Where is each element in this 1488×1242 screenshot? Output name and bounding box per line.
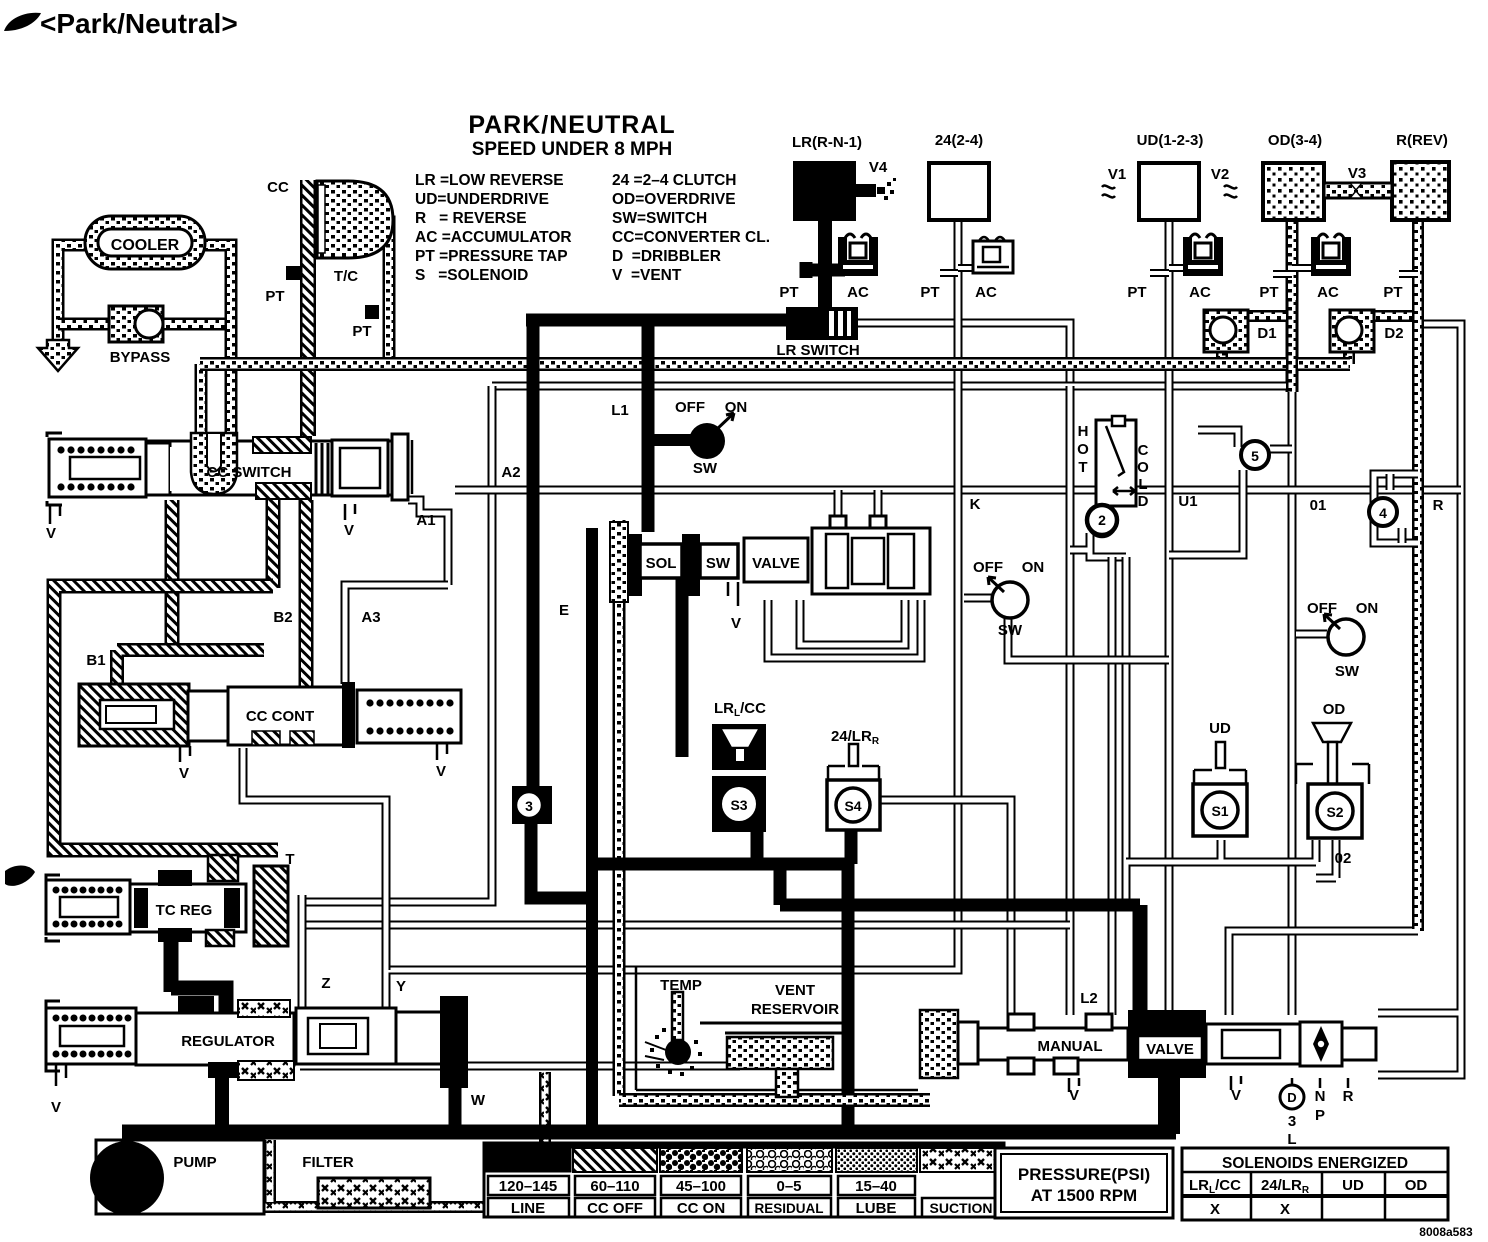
svg-text:V4: V4 xyxy=(869,159,888,176)
wire: secondary bus y386 xyxy=(492,382,1292,391)
wire: cooler right pipe down to CC switch xyxy=(198,245,231,462)
svg-text:SPEED UNDER 8 MPH: SPEED UNDER 8 MPH xyxy=(472,139,673,160)
svg-text:X: X xyxy=(1210,1201,1220,1218)
svg-text:3: 3 xyxy=(525,798,533,814)
pressure psi box xyxy=(995,1148,1173,1218)
svg-text:LRL/CC: LRL/CC xyxy=(714,700,766,719)
svg-text:C: C xyxy=(1138,442,1149,459)
wire: Z vertical xyxy=(298,895,307,1012)
switch SW1 (on, black) xyxy=(689,423,725,459)
circuit ball 2 xyxy=(1087,505,1117,535)
svg-text:60–110: 60–110 xyxy=(590,1178,639,1195)
CC CONT valve xyxy=(79,682,461,762)
svg-text:U1: U1 xyxy=(1178,493,1197,510)
svg-text:R: R xyxy=(1433,497,1444,514)
svg-text:120–145: 120–145 xyxy=(499,1178,557,1195)
wire: A3 branch xyxy=(345,585,448,684)
svg-text:S3: S3 xyxy=(730,797,747,813)
solenoid S2 xyxy=(1296,723,1369,838)
svg-text:UD=UNDERDRIVE: UD=UNDERDRIVE xyxy=(415,191,549,208)
svg-text:UD: UD xyxy=(1342,1177,1364,1194)
pressure legend table xyxy=(484,1143,1004,1217)
wire: under solenoid-valve U loop xyxy=(768,600,921,658)
svg-text:E: E xyxy=(559,602,569,619)
svg-text:PRESSURE(PSI): PRESSURE(PSI) xyxy=(1018,1165,1150,1184)
wire: black bus under solenoids xyxy=(592,826,851,864)
svg-text:CC: CC xyxy=(267,179,289,196)
vent squiggles V2 xyxy=(1224,186,1237,198)
svg-text:SW: SW xyxy=(706,555,731,572)
svg-text:SW: SW xyxy=(693,460,718,477)
svg-text:SOLENOIDS ENERGIZED: SOLENOIDS ENERGIZED xyxy=(1222,1155,1408,1172)
svg-text:2: 2 xyxy=(1098,512,1106,528)
svg-text:B2: B2 xyxy=(273,609,292,626)
wire: S1 column lines xyxy=(1112,557,1126,1015)
svg-text:ON: ON xyxy=(725,399,748,416)
wire: OD clutch stem (stipple) xyxy=(1286,218,1299,392)
svg-text:VENT: VENT xyxy=(775,982,815,999)
solenoid S1 xyxy=(1193,742,1247,836)
V3 link channel xyxy=(1324,183,1392,198)
svg-text:A1: A1 xyxy=(416,512,435,529)
CC switch valve xyxy=(47,433,412,524)
svg-text:V3: V3 xyxy=(1348,165,1366,182)
svg-text:V: V xyxy=(179,765,189,782)
wire: regulator bottom stem xyxy=(215,1078,229,1132)
wire: LR pressure tap tee xyxy=(804,262,845,278)
svg-text:V: V xyxy=(344,522,354,539)
svg-text:OD(3-4): OD(3-4) xyxy=(1268,132,1322,149)
solenoid 3 box xyxy=(512,786,552,824)
svg-text:T: T xyxy=(285,851,294,868)
bypass valve xyxy=(109,306,163,342)
filter xyxy=(318,1178,430,1208)
wire: 01 line down to manual valve xyxy=(1288,388,1297,1015)
pressure tap on converter outlet xyxy=(365,305,379,319)
wire: U1 line from UD clutch down to manual valve xyxy=(1165,222,1174,1015)
svg-text:CC ON: CC ON xyxy=(677,1200,725,1217)
wire: L2 line from LR switch elbow down to manual valve xyxy=(1066,386,1075,1015)
circuit ball 4 with bracket xyxy=(1374,474,1418,543)
svg-text:SUCTION: SUCTION xyxy=(930,1200,993,1216)
svg-text:4: 4 xyxy=(1379,505,1387,521)
wire: T/C dome outlet down to bus xyxy=(365,222,389,364)
wire: main line-pressure stipple bus xyxy=(200,357,1350,371)
gear indicator D circle xyxy=(1280,1085,1304,1109)
svg-text:D =DRIBBLER: D =DRIBBLER xyxy=(612,248,721,265)
wire: drop to 3-solenoid xyxy=(527,314,540,788)
svg-text:LUBE: LUBE xyxy=(856,1200,897,1217)
svg-text:OFF: OFF xyxy=(973,559,1003,576)
svg-text:PARK/NEUTRAL: PARK/NEUTRAL xyxy=(468,111,675,139)
accumulator AC (LR, black) xyxy=(838,234,878,276)
svg-text:V: V xyxy=(436,763,446,780)
svg-text:PUMP: PUMP xyxy=(173,1154,216,1171)
svg-text:A3: A3 xyxy=(361,609,380,626)
svg-text:V1: V1 xyxy=(1108,166,1126,183)
svg-text:24 =2–4 CLUTCH: 24 =2–4 CLUTCH xyxy=(612,172,736,189)
wire: A2 bus xyxy=(455,486,1461,495)
manual valve xyxy=(958,1010,1376,1134)
wire: switch2 feed and loop to U1 xyxy=(964,598,1169,660)
vent V4 nozzle xyxy=(854,184,876,197)
svg-text:P: P xyxy=(1315,1107,1325,1124)
svg-text:PT: PT xyxy=(265,288,284,305)
solenoid valve assembly SOL/SW/VALVE xyxy=(610,516,930,606)
wire: thermal element bottom bracket xyxy=(1070,533,1126,557)
wire: suction line pump-filter-regulator (stipple) xyxy=(140,1072,545,1207)
wire: W drop xyxy=(449,1085,462,1132)
svg-text:T: T xyxy=(1078,459,1087,476)
svg-text:D: D xyxy=(1287,1090,1296,1105)
wire: LR switch left bus xyxy=(526,314,790,327)
svg-text:A2: A2 xyxy=(501,464,520,481)
svg-text:W: W xyxy=(471,1092,486,1109)
wire: stipple bus overlay (bus passes over thin lines) xyxy=(200,300,1418,1096)
svg-text:CC=CONVERTER CL.: CC=CONVERTER CL. xyxy=(612,229,770,246)
svg-text:PT: PT xyxy=(1259,284,1278,301)
svg-text:AC: AC xyxy=(1189,284,1211,301)
svg-text:V: V xyxy=(51,1099,61,1116)
wire: switch3 feed xyxy=(1296,630,1327,639)
LR switch body xyxy=(786,307,858,340)
TC REG valve xyxy=(46,855,288,946)
svg-text:S2: S2 xyxy=(1326,804,1343,820)
solenoids energized table xyxy=(1182,1148,1448,1220)
wire: valve top feeds from A2 bus xyxy=(838,490,878,522)
wire: R(REV) stem (stipple) xyxy=(1412,218,1424,931)
svg-text:L: L xyxy=(1287,1131,1296,1148)
solenoid S3 (energized) xyxy=(712,724,766,832)
wire: manual valve feed bus xyxy=(780,864,1140,905)
svg-text:UD: UD xyxy=(1209,720,1231,737)
pressure tap on converter shell xyxy=(286,266,302,280)
svg-text:PT: PT xyxy=(920,284,939,301)
svg-text:L2: L2 xyxy=(1080,990,1098,1007)
switch SW2 (off, white) xyxy=(992,582,1028,618)
svg-text:RESIDUAL: RESIDUAL xyxy=(754,1201,823,1216)
svg-text:MANUAL: MANUAL xyxy=(1038,1038,1103,1055)
svg-text:24(2-4): 24(2-4) xyxy=(935,132,983,149)
svg-text:LR =LOW REVERSE: LR =LOW REVERSE xyxy=(415,172,564,189)
svg-text:V2: V2 xyxy=(1211,166,1229,183)
svg-text:PT: PT xyxy=(779,284,798,301)
thermal element HOT/COLD xyxy=(1096,416,1136,506)
svg-text:V =VENT: V =VENT xyxy=(612,267,682,284)
wire: S3 feed from SOL xyxy=(676,576,689,757)
wire: D1 stub and stem xyxy=(1222,316,1292,364)
LR clutch (applied, black) xyxy=(793,161,856,221)
wire: S1-S2 bottom bus xyxy=(1126,840,1316,907)
svg-text:V: V xyxy=(1231,1087,1241,1104)
REGULATOR valve xyxy=(46,996,468,1088)
OD clutch (dotted) xyxy=(1263,163,1324,220)
vent reservoir xyxy=(619,966,958,1100)
legend column 1 xyxy=(415,172,572,284)
hatch: CC switch drop legs xyxy=(172,500,306,690)
svg-text:O: O xyxy=(1137,459,1149,476)
svg-text:CC SWITCH: CC SWITCH xyxy=(207,464,292,481)
svg-text:RESERVOIR: RESERVOIR xyxy=(751,1001,839,1018)
svg-text:ON: ON xyxy=(1356,600,1379,617)
wire: solenoid vent line to reservoir (stipple) xyxy=(613,520,626,962)
svg-text:OD=OVERDRIVE: OD=OVERDRIVE xyxy=(612,191,736,208)
svg-text:O: O xyxy=(1077,441,1089,458)
svg-text:OD: OD xyxy=(1405,1177,1428,1194)
svg-text:PT =PRESSURE TAP: PT =PRESSURE TAP xyxy=(415,248,568,265)
legend column 2 xyxy=(612,172,770,284)
wire: bottom main black bus xyxy=(122,1125,1176,1140)
svg-text:FILTER: FILTER xyxy=(302,1154,354,1171)
svg-text:COOLER: COOLER xyxy=(111,237,180,254)
svg-text:PT: PT xyxy=(1127,284,1146,301)
accumulator AC (UD, black) xyxy=(1183,234,1223,276)
svg-text:PT: PT xyxy=(352,323,371,340)
hatch: converter feed loop xyxy=(54,586,278,880)
svg-text:R: R xyxy=(1343,1088,1354,1105)
swoosh mid-left xyxy=(5,865,35,885)
circuit ball 5 xyxy=(1241,441,1269,469)
svg-text:V: V xyxy=(731,615,741,632)
svg-text:T/C: T/C xyxy=(334,268,358,285)
svg-text:H: H xyxy=(1078,423,1089,440)
wire: LR switch to right elbow xyxy=(857,323,1070,386)
svg-text:SOL: SOL xyxy=(646,555,677,572)
wire: K line from 2-4 clutch down and left to regulator Y xyxy=(386,220,958,1012)
svg-text:AC: AC xyxy=(847,284,869,301)
dribbler D1 xyxy=(1204,310,1248,352)
wire: S4 output to manual valve xyxy=(879,800,1011,1015)
svg-text:K: K xyxy=(970,496,981,513)
svg-text:D1: D1 xyxy=(1257,325,1276,342)
wire: cooler left pipe xyxy=(58,245,90,342)
svg-text:D2: D2 xyxy=(1384,325,1403,342)
wire: circuit 5 connections xyxy=(1169,430,1292,555)
svg-text:<Park/Neutral>: <Park/Neutral> xyxy=(40,8,238,39)
wire: 02 hook from S2 xyxy=(1316,840,1336,878)
svg-text:S =SOLENOID: S =SOLENOID xyxy=(415,267,528,284)
wire: A1 branch xyxy=(408,500,448,585)
wire: R return to manual valve xyxy=(1229,931,1418,1015)
svg-text:S4: S4 xyxy=(844,798,861,814)
svg-text:D: D xyxy=(1138,493,1149,510)
wire: switch1 arm xyxy=(648,434,692,446)
wire: E line xyxy=(586,528,598,1134)
svg-text:8008a583: 8008a583 xyxy=(1419,1225,1473,1239)
accumulator AC (OD, black) xyxy=(1311,234,1351,276)
svg-text:X: X xyxy=(1280,1201,1290,1218)
svg-text:V: V xyxy=(46,525,56,542)
drain arrow xyxy=(38,340,78,371)
svg-text:LRL/CC: LRL/CC xyxy=(1189,1177,1241,1196)
wire: D2 stub and stem xyxy=(1349,316,1418,364)
wire: regulator lower line to reservoir xyxy=(300,1062,740,1071)
svg-text:TEMP: TEMP xyxy=(660,977,702,994)
wire: bypass stubs xyxy=(58,318,231,331)
svg-text:R(REV): R(REV) xyxy=(1396,132,1448,149)
svg-text:LINE: LINE xyxy=(511,1200,545,1217)
UD clutch (white) xyxy=(1139,163,1199,220)
svg-text:CC CONT: CC CONT xyxy=(246,708,314,725)
svg-text:OD: OD xyxy=(1323,701,1346,718)
svg-text:15–40: 15–40 xyxy=(855,1178,897,1195)
svg-text:SW: SW xyxy=(1335,663,1360,680)
svg-text:45–100: 45–100 xyxy=(676,1178,726,1195)
svg-text:VALVE: VALVE xyxy=(752,555,800,572)
svg-text:PT: PT xyxy=(1383,284,1402,301)
svg-text:AT 1500 RPM: AT 1500 RPM xyxy=(1031,1186,1137,1205)
svg-text:LR SWITCH: LR SWITCH xyxy=(776,342,859,359)
dribbler D2 xyxy=(1330,310,1374,352)
svg-text:OFF: OFF xyxy=(1307,600,1337,617)
svg-text:SW=SWITCH: SW=SWITCH xyxy=(612,210,707,227)
24 clutch (released, white) xyxy=(929,163,989,220)
svg-text:3: 3 xyxy=(1288,1113,1296,1130)
wire: LR clutch stem xyxy=(818,218,832,310)
svg-text:TC REG: TC REG xyxy=(156,902,213,919)
T/C torque converter dome xyxy=(317,181,393,258)
svg-text:UD(1-2-3): UD(1-2-3) xyxy=(1137,132,1204,149)
svg-text:AC: AC xyxy=(975,284,997,301)
R(REV) clutch (dotted) xyxy=(1392,162,1449,220)
svg-text:SW: SW xyxy=(998,622,1023,639)
svg-text:B1: B1 xyxy=(86,652,105,669)
hatch: T/C converter shell xyxy=(300,180,316,436)
svg-text:02: 02 xyxy=(1335,850,1352,867)
wire: TC REG stem xyxy=(171,935,226,1014)
svg-text:0–5: 0–5 xyxy=(776,1178,801,1195)
svg-text:AC: AC xyxy=(1317,284,1339,301)
pump xyxy=(96,1140,264,1214)
svg-text:REGULATOR: REGULATOR xyxy=(181,1033,275,1050)
vent squiggles V1 xyxy=(1102,186,1115,198)
wire: R branch to far-right line down to manual valve xyxy=(1378,324,1461,1075)
svg-text:5: 5 xyxy=(1251,448,1259,464)
wire: CC CONT output down to regulator xyxy=(243,748,386,970)
switch SW3 (off, white) xyxy=(1328,619,1364,655)
svg-text:L1: L1 xyxy=(611,402,629,419)
wire: regulator Z long line to L2 xyxy=(302,921,1070,930)
wire: A2-left long vertical xyxy=(302,386,492,902)
svg-text:Y: Y xyxy=(396,978,406,995)
svg-text:CC OFF: CC OFF xyxy=(587,1200,643,1217)
svg-text:ON: ON xyxy=(1022,559,1045,576)
svg-text:OFF: OFF xyxy=(675,399,705,416)
wire: pressure tap tees xyxy=(940,268,1418,274)
svg-text:V: V xyxy=(1069,1087,1079,1104)
cooler xyxy=(85,216,205,269)
svg-text:N: N xyxy=(1315,1088,1326,1105)
svg-text:BYPASS: BYPASS xyxy=(110,349,171,366)
svg-text:LR(R-N-1): LR(R-N-1) xyxy=(792,134,862,151)
wire: bus elbow down to CC switch xyxy=(195,364,208,462)
accumulator AC (24, outline) xyxy=(973,237,1013,273)
svg-text:AC =ACCUMULATOR: AC =ACCUMULATOR xyxy=(415,229,572,246)
wire: manual valve drop xyxy=(1133,905,1148,1025)
hatch: B1 branch xyxy=(117,650,264,692)
wire: bus down-link xyxy=(842,864,855,1132)
wire: drop to sol valve xyxy=(642,314,655,532)
svg-text:Z: Z xyxy=(321,975,330,992)
temp thermometer xyxy=(645,992,702,1076)
svg-text:01: 01 xyxy=(1310,497,1327,514)
swoosh top-left xyxy=(4,13,41,31)
svg-text:R = REVERSE: R = REVERSE xyxy=(415,210,527,227)
wire: 3-box to E line xyxy=(531,820,596,898)
svg-text:S1: S1 xyxy=(1211,803,1228,819)
svg-text:L: L xyxy=(1138,476,1147,493)
svg-text:VALVE: VALVE xyxy=(1146,1041,1194,1058)
solenoid S4 xyxy=(827,744,880,830)
